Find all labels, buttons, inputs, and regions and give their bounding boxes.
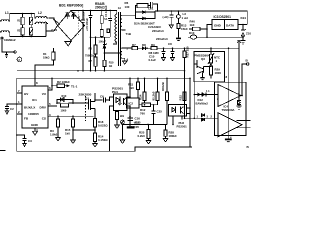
IC3 gnd wire: [207, 25, 212, 38]
ground output: [237, 106, 242, 109]
wire sense mid to R15: [73, 127, 95, 133]
dashed line right of bridge: [77, 12, 79, 37]
output plus terminal: [237, 40, 241, 48]
resistor R24: [144, 78, 146, 80]
earth stub symbol: [5, 52, 8, 58]
thermistor NTC: [210, 54, 213, 63]
transformer T1 primary winding: [113, 10, 117, 44]
op-amp U4A triangle: [218, 85, 241, 107]
transformer T1 secondary winding lower: [120, 48, 124, 61]
svg-text:R2 130k0: R2 130k0: [57, 80, 70, 84]
svg-text:1 uH: 1 uH: [182, 16, 188, 20]
wire L1 bottom to rail: [10, 32, 46, 37]
resistor R2: [21, 28, 24, 35]
svg-text:L1: L1: [5, 11, 9, 15]
pin 7: [17, 92, 22, 94]
svg-text:R10: R10: [109, 61, 114, 65]
ground C22: [169, 25, 173, 28]
node dot R1 bottom: [22, 36, 24, 38]
SECTION: feedback middle: [120, 78, 191, 148]
svg-text:(+Ω): (+Ω): [163, 15, 169, 19]
svg-text:750kΩx2: 750kΩx2: [85, 54, 96, 58]
feedback lower bus: [122, 123, 168, 125]
ground sec lower: [123, 61, 128, 64]
ground X: [120, 140, 125, 143]
svg-text:BUX/LX: BUX/LX: [24, 106, 36, 110]
svg-text:GND: GND: [31, 123, 39, 127]
svg-text:1A: 1A: [118, 6, 121, 10]
node dot sense mid: [94, 129, 96, 131]
svg-text:C4 120uF: C4 120uF: [104, 5, 108, 17]
SECTION: transformer + snubber + secondary: [113, 1, 247, 118]
wire X down: [122, 124, 124, 140]
node dot C5: [82, 10, 84, 12]
svg-text:T1-1: T1-1: [71, 84, 78, 88]
terminal B+: [247, 63, 249, 65]
SECTION: bridge + bulk: [35, 2, 122, 86]
primary ground loop left: [17, 78, 190, 151]
svg-text:L2: L2: [38, 11, 42, 15]
ground C3: [23, 144, 26, 147]
svg-text:R24: R24: [139, 94, 143, 100]
inductor L3: [177, 11, 179, 15]
opamp supply pin 8: [227, 48, 229, 138]
secondary top rail: [155, 11, 247, 25]
pin 2 FB: [17, 113, 22, 115]
wire node to bridge left vertex: [54, 20, 60, 25]
svg-text:VU: VU: [42, 92, 47, 96]
op-amp U4B triangle: [218, 113, 242, 137]
bridge rectifier BD1 diamond: [58, 11, 85, 41]
shunt reference IC2 box: [127, 98, 140, 108]
capacitor C2p at left edge: [5, 104, 17, 111]
Q3 box: [194, 52, 225, 82]
node dot R17 rail cross: [184, 70, 186, 72]
wire D12 to opamp1: [209, 94, 218, 96]
ground Q3 emitter: [202, 73, 204, 78]
inductor L2 winding B: [35, 22, 48, 23]
arrow T1-1: [65, 85, 67, 87]
small box right: [107, 29, 110, 33]
capacitor C21B: [171, 48, 175, 57]
ground C21B: [170, 58, 174, 61]
node dot aux tap: [104, 52, 106, 54]
earth wire from N: [2, 37, 14, 53]
svg-text:T1B: T1B: [126, 32, 131, 36]
ground C2p: [5, 111, 8, 114]
opamp1 output: [241, 95, 242, 97]
wire gate to Q1: [73, 102, 88, 104]
wire bottom branch to bridge: [46, 30, 54, 32]
opto PH2 internals: [172, 107, 184, 114]
transistor Q3: [195, 60, 212, 74]
svg-text:180k0: 180k0: [169, 134, 177, 138]
resistor R9: [147, 47, 151, 49]
resistor R13: [177, 24, 180, 29]
node dot C1 bottom: [30, 36, 32, 38]
ground IC3: [242, 36, 244, 38]
opto PH1 led: [116, 97, 122, 106]
pin 3 CS wire: [48, 115, 94, 117]
resistor R19: [116, 111, 118, 112]
svg-text:GND: GND: [214, 24, 222, 28]
wire R4 bottom to pin8: [35, 60, 53, 86]
wire aux tap: [104, 52, 121, 54]
svg-text:R9: R9: [151, 43, 155, 47]
svg-text:KE1: KE1: [241, 16, 247, 20]
resistor R15: [72, 119, 75, 127]
resistor R6: [137, 4, 148, 8]
SECTION: top right DS2501: [206, 15, 251, 44]
SECTION: EMI input filter: [0, 11, 60, 62]
node dot opto right top: [129, 96, 131, 98]
wire output up to B+: [242, 64, 246, 96]
node dot R1 top: [22, 13, 24, 15]
ground R25: [146, 141, 151, 144]
capacitor C3: [17, 135, 27, 144]
diode D2A glyph: [142, 11, 150, 14]
node dot C5 on gnd rail: [82, 70, 84, 72]
svg-text:2 04: 2 04: [51, 28, 57, 32]
svg-text:1000: 1000: [61, 109, 67, 113]
wire secondary to D2: [125, 14, 135, 16]
node wire merge y37: [91, 36, 111, 38]
opto PH1 transistor: [124, 98, 127, 106]
svg-text:130: 130: [125, 5, 130, 9]
svg-text:+C5: +C5: [77, 16, 81, 21]
gate network diode branch: [57, 98, 73, 104]
svg-text:C2: C2: [10, 107, 14, 111]
opto PH1 box: [114, 94, 128, 111]
ground bar thick: [127, 126, 135, 128]
left column from Q3 box: [193, 82, 195, 119]
svg-text:0.022Ω: 0.022Ω: [98, 124, 108, 128]
resistor R11: [137, 78, 139, 82]
gate network R10 resistor: [61, 104, 69, 107]
svg-text:C25: C25: [157, 110, 163, 114]
svg-text:100uF: 100uF: [82, 11, 86, 19]
svg-text:D10: D10: [189, 31, 195, 35]
node dot R5A: [101, 10, 103, 12]
svg-text:1Ω: 1Ω: [109, 64, 113, 68]
svg-text:DATA: DATA: [226, 24, 235, 28]
node dot C22 on rail: [171, 10, 173, 12]
resistor R12 horizontal: [139, 104, 142, 106]
wire bottom left edge: [0, 149, 6, 151]
svg-text:220uFx3: 220uFx3: [156, 37, 168, 41]
wire L2 in bottom: [45, 24, 47, 37]
ground bridge minus: [65, 41, 71, 46]
svg-text:R17 150: R17 150: [186, 46, 190, 57]
transformer T1 secondary winding top: [120, 15, 125, 30]
svg-text:R6: R6: [89, 47, 93, 51]
U4B input wire: [185, 117, 219, 119]
svg-text:1k0: 1k0: [65, 132, 70, 136]
terminal circle: [14, 51, 16, 53]
snubber wire up from D2: [135, 6, 137, 13]
SECTION: opamp right: [185, 48, 251, 149]
ground R28: [163, 139, 168, 142]
node dot opto right bottom: [129, 105, 131, 107]
svg-text:0.2k0: 0.2k0: [138, 134, 146, 138]
ground R19: [115, 125, 120, 128]
ground pin4: [32, 131, 37, 135]
dashed line Q1: [85, 96, 87, 121]
svg-text:R7: R7: [89, 59, 93, 63]
opto PH2 box: [169, 105, 187, 117]
svg-text:R10: R10: [62, 94, 67, 98]
pin 4 GND: [34, 128, 36, 131]
wire V+ down to output node: [238, 48, 240, 95]
svg-text:IC3 DS2501: IC3 DS2501: [214, 15, 232, 19]
DC+ rail: [71, 10, 117, 12]
svg-text:IC1: IC1: [32, 98, 37, 102]
wire down from R5B: [103, 37, 105, 60]
output diode Dz: [237, 96, 241, 107]
wire V+ into Q3 box: [210, 48, 212, 54]
resistor R25: [148, 124, 150, 129]
capacitor C6: [95, 98, 110, 103]
svg-text:R8A/B: R8A/B: [161, 82, 165, 91]
ground C21A: [161, 58, 165, 61]
svg-text:1k0: 1k0: [129, 86, 134, 90]
svg-text:Q3: Q3: [201, 57, 205, 61]
svg-text:R7: R7: [132, 43, 136, 47]
svg-text:IC2: IC2: [129, 102, 134, 106]
inductor L2 winding A: [35, 17, 48, 18]
node dot L2 out: [53, 19, 55, 21]
U4B input lines: [237, 121, 251, 128]
resistor R29: [210, 63, 212, 66]
resistor R5A: [101, 10, 103, 15]
svg-text:DRV: DRV: [40, 106, 47, 110]
resistor R3: [57, 119, 60, 127]
resistor R14: [94, 133, 97, 142]
svg-text:10MΩx2: 10MΩx2: [4, 38, 16, 42]
diode D12 pair: [194, 93, 209, 97]
resistor R10: [103, 60, 106, 66]
diode inside BD1 right: [72, 13, 76, 19]
wire opto collector up: [129, 78, 131, 97]
ground R3: [56, 138, 61, 141]
svg-text:R4: R4: [43, 52, 47, 56]
node dot C1 top: [30, 13, 32, 15]
svg-text:BAV99x2: BAV99x2: [196, 102, 209, 106]
resistor R18: [94, 119, 97, 128]
SECTION: controller IC1: [5, 70, 192, 151]
svg-text:C3: C3: [28, 139, 32, 143]
node dot after D8: [146, 47, 148, 49]
capacitor C21A: [162, 48, 166, 57]
opto PH2 pins: [173, 108, 190, 124]
svg-text:Ω9: Ω9: [120, 114, 124, 118]
capacitor C16: [128, 118, 134, 121]
svg-text:+C15: +C15: [134, 121, 141, 125]
svg-text:220uFx3: 220uFx3: [152, 29, 164, 33]
pin 1: [17, 103, 22, 105]
ground R15: [71, 140, 76, 143]
node dot bridge on rail: [77, 70, 79, 72]
V+ secondary rail: [157, 47, 239, 49]
diode D2B glyph: [142, 17, 150, 20]
resistor R1: [21, 17, 24, 24]
SECTION: mosfet + sense: [51, 78, 140, 152]
resistor R9b: [95, 54, 97, 57]
inductor L1 winding A: [0, 20, 10, 21]
resistor R22 on R17 column: [183, 92, 186, 101]
svg-text:D8: D8: [142, 43, 146, 47]
connector circle X: [121, 120, 125, 124]
fuse D10 oval: [190, 35, 196, 39]
resistor R40: [189, 28, 193, 30]
svg-text:PS2501: PS2501: [177, 125, 188, 129]
svg-text:0.1uF: 0.1uF: [149, 58, 157, 62]
capacitor C1: [30, 17, 33, 24]
wire PH2 collector column: [189, 78, 191, 147]
svg-text:1 1: 1 1: [206, 89, 210, 93]
svg-text:C8: C8: [168, 42, 172, 46]
svg-text:5A: 5A: [104, 18, 107, 21]
ground R13 thick: [176, 38, 181, 40]
wire AC in top to bridge: [54, 20, 58, 26]
svg-text:1k0: 1k0: [190, 23, 195, 27]
wire opto emitter down: [129, 106, 131, 127]
wire AC in bottom to bridge: [54, 26, 58, 32]
svg-text:18kΩ: 18kΩ: [43, 56, 49, 60]
svg-text:+C5 100uF: +C5 100uF: [85, 18, 89, 31]
wire L2 in top: [34, 14, 36, 19]
node dot FB branch: [16, 134, 18, 136]
diode D13 pair: [201, 114, 205, 117]
svg-text:CS: CS: [42, 117, 46, 121]
svg-text:760: 760: [140, 112, 145, 116]
svg-text:100uF: 100uF: [99, 39, 107, 43]
svg-text:BD1 KBP306G]: BD1 KBP306G]: [59, 4, 83, 8]
pin 6 VCC wire: [48, 78, 52, 90]
dual diode D2 package box: [135, 12, 155, 18]
opto PH1 pins left: [110, 97, 114, 151]
capacitor C5 bulk: [81, 10, 85, 70]
opto PH1 pins right: [127, 97, 130, 106]
ground R14: [93, 142, 98, 147]
wire R4 top: [52, 48, 54, 52]
wire L2 out to bridge top: [49, 18, 54, 20]
svg-text:1.8k0: 1.8k0: [50, 133, 58, 137]
pin 5 DRV wire: [48, 105, 57, 107]
svg-text:81.2k0: 81.2k0: [152, 91, 156, 100]
svg-text:TSM103A: TSM103A: [222, 108, 236, 112]
svg-text:LMC05: LMC05: [130, 125, 140, 129]
connector circled 2: [17, 57, 22, 62]
resistor R7: [132, 47, 138, 50]
wire aux pin1 to R7: [125, 47, 132, 49]
capacitor C4: [108, 10, 112, 37]
zener D5 on column: [103, 44, 107, 49]
zener Z10: [241, 25, 245, 38]
svg-text:0.150Ω: 0.150Ω: [98, 138, 108, 142]
svg-text:Z10: Z10: [246, 32, 251, 36]
primary ground loop bottom: [17, 147, 192, 151]
svg-text:100R05: 100R05: [28, 112, 39, 116]
resistor R5B: [100, 29, 103, 36]
svg-text:C6: C6: [100, 95, 104, 99]
IC1 box: [22, 86, 48, 128]
node dot C4: [109, 10, 111, 12]
opamp box: [215, 82, 247, 135]
svg-text:PS2501: PS2501: [112, 87, 123, 91]
capacitor C2: [30, 28, 33, 35]
resistor R17: [184, 48, 186, 51]
diode inside BD1 left: [65, 13, 69, 19]
diode D8: [138, 47, 148, 50]
inductor L1 winding B: [0, 31, 10, 32]
svg-text:R22: R22: [179, 95, 183, 101]
resistor R1g horizontal: [52, 85, 57, 87]
node dot snubber on rail: [157, 10, 159, 12]
IC3 box: [212, 20, 238, 30]
resistor R9a: [95, 37, 97, 45]
transistor Q1 mosfet: [88, 93, 96, 119]
resistor R20: [157, 78, 159, 80]
capacitor C22: [169, 11, 173, 25]
svg-text:PH1: PH1: [112, 90, 118, 94]
IC3 data wire: [238, 24, 247, 26]
resistor R8A vertical text: [166, 78, 168, 80]
svg-text:1800: 1800: [215, 71, 222, 75]
svg-text:200kΩ: 200kΩ: [95, 6, 105, 10]
wire L1 top to rail: [10, 14, 35, 22]
capacitor C21: [148, 2, 157, 11]
resistor R4: [52, 52, 55, 60]
DS2501 gnd rail: [188, 36, 243, 38]
transformer T1 core: [119, 12, 121, 66]
resistor R28: [165, 124, 167, 130]
capacitor C25: [152, 105, 156, 125]
node dot L3 on rail: [178, 10, 180, 12]
primary DC- rail: [17, 70, 185, 72]
node dots on V+ rail: [163, 47, 165, 49]
capacitor C5 bulk: [90, 10, 92, 12]
svg-text:C21: C21: [148, 7, 154, 11]
svg-text:15k0: 15k0: [181, 27, 188, 31]
